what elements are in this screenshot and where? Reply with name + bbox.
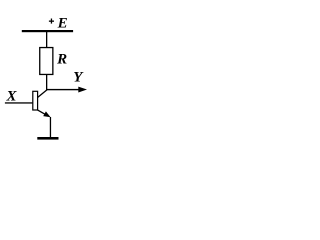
wire emitter diagonal with arrow	[38, 110, 51, 117]
wire collector diagonal	[38, 90, 47, 98]
svg-text:Y: Y	[73, 70, 84, 86]
transistor VT1 base plate	[33, 91, 38, 110]
wire rail to resistor	[46, 32, 47, 48]
svg-text:E: E	[57, 15, 68, 31]
wire resistor to collector node	[46, 75, 47, 91]
wire emitter to ground	[50, 117, 51, 137]
resistor R	[40, 48, 53, 75]
svg-text:R: R	[56, 52, 67, 68]
label +E supply	[49, 15, 68, 31]
output arrow Y	[46, 87, 87, 93]
svg-text:X: X	[6, 88, 18, 104]
power rail +E	[22, 30, 73, 32]
ground	[37, 137, 58, 140]
wire base input X	[5, 102, 33, 103]
